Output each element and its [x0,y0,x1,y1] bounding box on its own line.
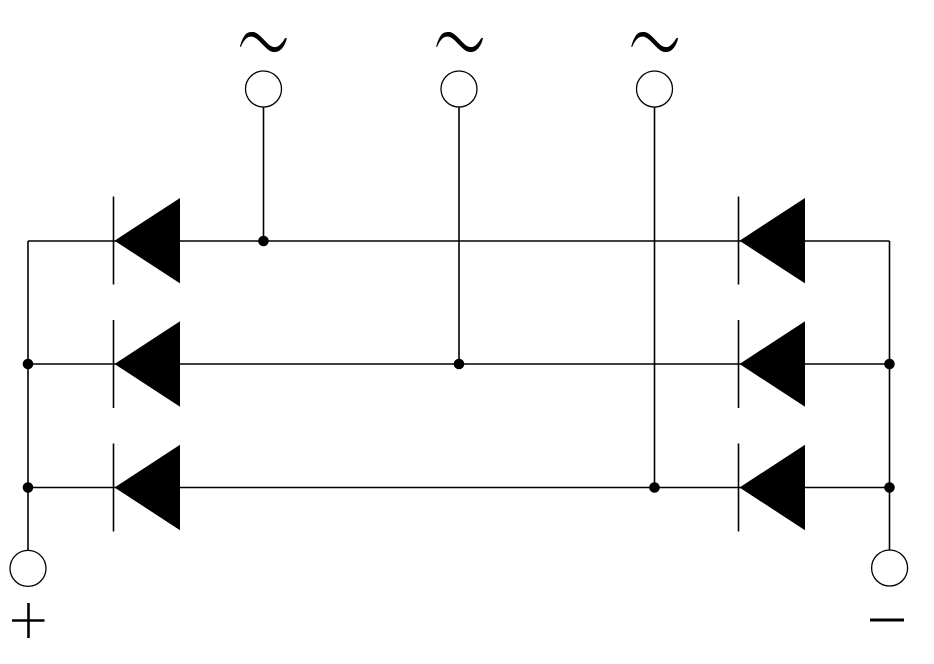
wire phase 3 vertical [654,107,656,488]
AC tilde label phase 3 [632,32,678,51]
wire row 3 horizontal [28,487,890,489]
wire phase 1 vertical [263,107,265,241]
node right rail row 2 [884,359,895,370]
diode D2 [114,320,181,408]
node phase 1 junction [258,236,269,247]
positive output terminal [10,550,46,586]
wire phase 2 vertical [458,107,460,364]
wire row 1 horizontal [28,240,890,242]
AC tilde label phase 2 [437,32,483,51]
AC terminal T2 [441,71,477,107]
node left rail row 3 [23,482,34,493]
wire right rail vertical [889,241,891,550]
diode D4 [739,197,806,285]
diode D6 [739,444,806,532]
AC terminal T1 [246,71,282,107]
AC tilde label phase 1 [240,32,286,51]
diode D1 [114,197,181,285]
negative output terminal [872,550,908,586]
node left rail row 2 [23,359,34,370]
node phase 3 junction [649,482,660,493]
plus label [12,603,45,638]
AC terminal T3 [637,71,673,107]
diode D5 [739,320,806,408]
wire left rail vertical [27,241,29,551]
diode D3 [114,444,181,532]
node right rail row 3 [884,482,895,493]
minus label [870,619,904,622]
wire row 2 horizontal [28,363,890,365]
node phase 2 junction [454,359,465,370]
